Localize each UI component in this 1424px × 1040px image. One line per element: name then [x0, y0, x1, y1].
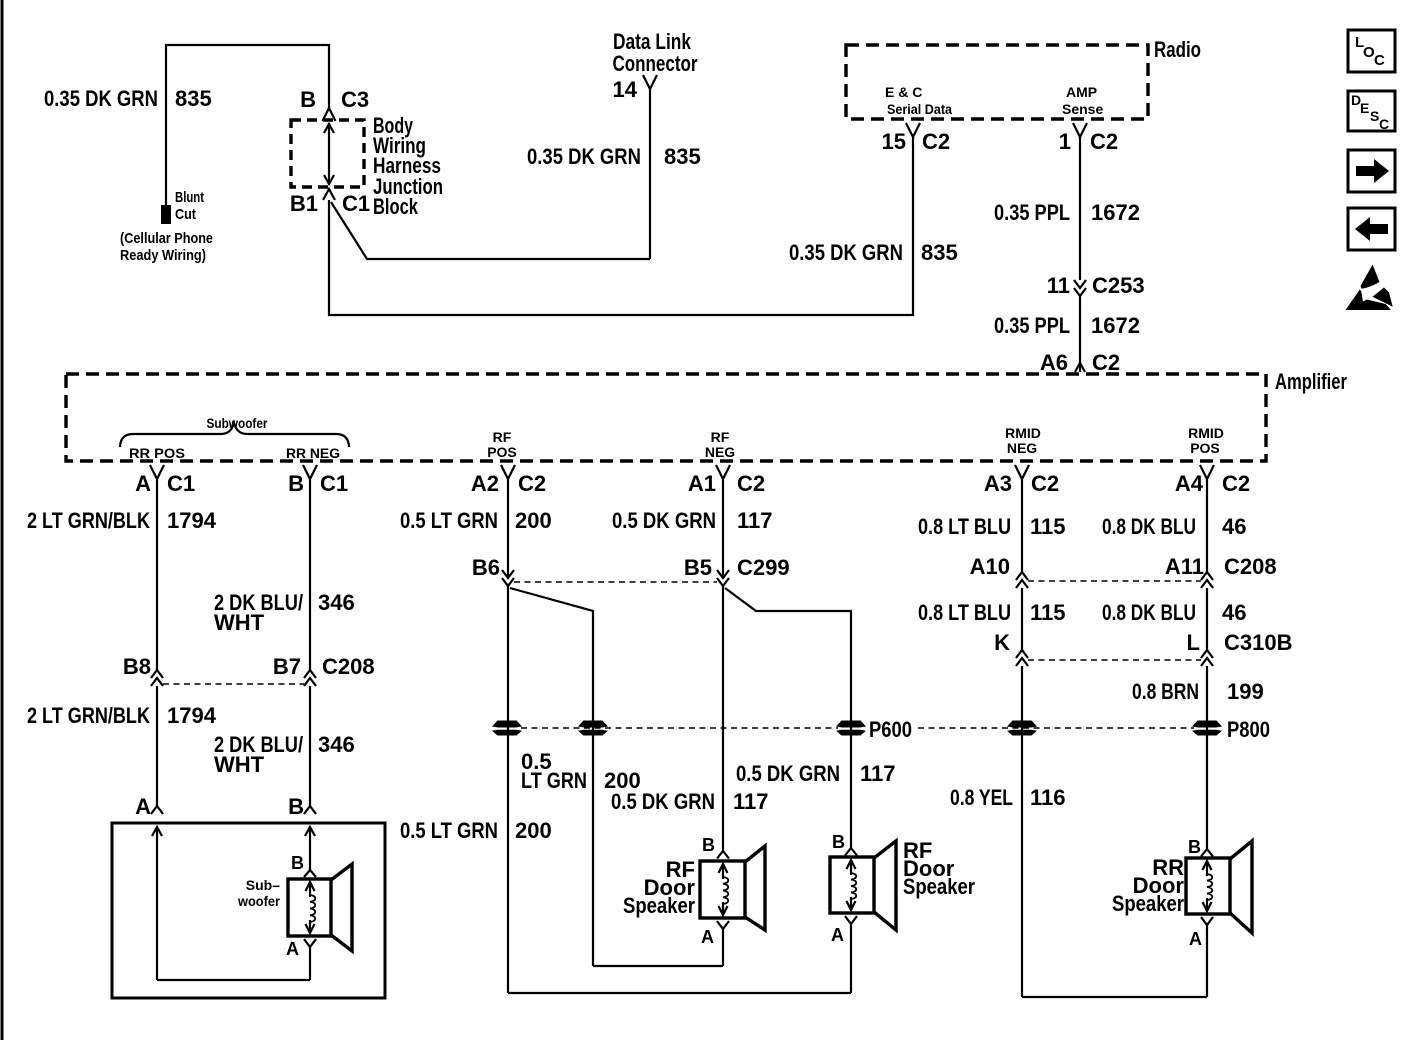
svg-text:K: K [994, 630, 1010, 655]
svg-text:C2: C2 [922, 129, 950, 154]
svg-text:115: 115 [1030, 600, 1066, 625]
svg-text:A: A [135, 471, 151, 496]
connector B8 [151, 670, 163, 678]
grommet P800 [1192, 721, 1222, 728]
connector B7 C208 [304, 670, 316, 678]
connector 11 C253 [1074, 280, 1086, 288]
amp pin A1 C2 fork [716, 465, 730, 479]
svg-text:0.8 DK BLU: 0.8 DK BLU [1102, 600, 1196, 625]
radio pin 1 fork [1073, 123, 1087, 137]
wire RF speaker 2 A return [850, 924, 852, 993]
subwoofer return wire [157, 979, 310, 981]
subwoofer speaker A fork [304, 939, 316, 947]
wire RR POS lower [156, 686, 158, 806]
svg-text:835: 835 [175, 86, 212, 111]
wire B5 branch [725, 588, 851, 848]
svg-text:A1: A1 [688, 471, 716, 496]
svg-text:Speaker: Speaker [1112, 891, 1184, 916]
svg-text:Block: Block [373, 194, 419, 219]
svg-text:200: 200 [515, 818, 552, 843]
svg-text:46: 46 [1222, 600, 1246, 625]
svg-text:1672: 1672 [1091, 200, 1140, 225]
radio pin 15 fork [906, 123, 920, 137]
subwoofer speaker B fork [304, 870, 316, 877]
connector B8-B7 dashed link [163, 683, 304, 685]
svg-text:B: B [300, 87, 316, 112]
grommet (B6 branch) [578, 721, 608, 728]
subwoofer wire B entry [305, 827, 315, 836]
svg-text:B: B [832, 832, 845, 852]
svg-text:WHT: WHT [214, 610, 265, 635]
svg-text:C208: C208 [322, 654, 375, 679]
wire RMID POS lower [1206, 666, 1208, 849]
amp pin A C1 fork [150, 465, 164, 479]
connector B6-B5 dashed link [514, 581, 717, 583]
svg-text:S: S [1370, 108, 1379, 124]
svg-text:Connector: Connector [613, 51, 698, 76]
wire B1 to DLC [331, 202, 650, 259]
svg-text:46: 46 [1222, 514, 1246, 539]
svg-text:C: C [1374, 52, 1385, 69]
icon DESC box [1348, 91, 1395, 131]
svg-text:WHT: WHT [214, 752, 265, 777]
svg-text:0.35 DK GRN: 0.35 DK GRN [789, 240, 903, 265]
svg-text:B5: B5 [684, 555, 712, 580]
svg-text:C2: C2 [518, 471, 546, 496]
svg-text:P600: P600 [869, 717, 912, 742]
svg-text:0.8 LT BLU: 0.8 LT BLU [918, 514, 1011, 539]
grommet (RMID NEG) [1007, 721, 1037, 728]
svg-text:RMID: RMID [1005, 425, 1041, 441]
svg-text:C3: C3 [341, 87, 369, 112]
svg-text:C2: C2 [737, 471, 765, 496]
wire RMID NEG upper [1021, 479, 1023, 572]
body wiring harness junction block box [291, 120, 364, 187]
grommet dashed link (right) [918, 727, 1194, 729]
svg-text:RF: RF [711, 429, 730, 445]
svg-text:Sub–: Sub– [246, 877, 280, 893]
svg-text:A: A [701, 927, 714, 947]
svg-text:0.5 LT GRN: 0.5 LT GRN [400, 818, 498, 843]
svg-text:Sense: Sense [1062, 101, 1103, 117]
svg-text:0.5 DK GRN: 0.5 DK GRN [611, 789, 715, 814]
svg-text:A11: A11 [1165, 554, 1204, 579]
wire RR speaker A return [1022, 996, 1207, 998]
wire AMP sense lower [1079, 296, 1081, 372]
connector A (subwoofer) chevron [151, 806, 163, 814]
svg-text:0.5 DK GRN: 0.5 DK GRN [736, 761, 840, 786]
svg-text:0.8 YEL: 0.8 YEL [950, 785, 1013, 810]
svg-text:woofer: woofer [237, 893, 280, 909]
wire RMID NEG lower [1021, 666, 1023, 997]
svg-text:1: 1 [1059, 129, 1071, 154]
DLC pin 14 fork [643, 75, 657, 89]
svg-text:C299: C299 [737, 555, 790, 580]
svg-text:POS: POS [1190, 440, 1220, 456]
svg-text:C208: C208 [1224, 554, 1277, 579]
amp pin A2 C2 fork [501, 465, 515, 479]
svg-text:0.35 DK GRN: 0.35 DK GRN [527, 144, 641, 169]
svg-text:(Cellular Phone: (Cellular Phone [120, 230, 213, 247]
RF speaker 2 B fork [845, 848, 857, 856]
junction block internal wire [328, 124, 330, 184]
wire B6 branch diagonal [510, 588, 593, 966]
svg-text:P800: P800 [1227, 717, 1270, 742]
svg-text:C1: C1 [167, 471, 195, 496]
connector A6 C2 arrow [1075, 363, 1085, 372]
svg-text:1794: 1794 [167, 508, 217, 533]
svg-text:C1: C1 [342, 191, 370, 216]
svg-text:0.8 LT BLU: 0.8 LT BLU [918, 600, 1011, 625]
svg-text:0.35 PPL: 0.35 PPL [994, 313, 1070, 338]
connector K-L dashed link [1028, 659, 1201, 661]
svg-text:B1: B1 [290, 191, 318, 216]
wire RR NEG lower [309, 686, 311, 806]
svg-text:0.35 DK GRN: 0.35 DK GRN [44, 86, 158, 111]
svg-text:C310B: C310B [1224, 630, 1292, 655]
svg-text:2 LT GRN/BLK: 2 LT GRN/BLK [27, 508, 150, 533]
wire AMP sense upper [1079, 137, 1081, 280]
svg-text:L: L [1187, 630, 1200, 655]
svg-text:A4: A4 [1175, 471, 1204, 496]
svg-text:11: 11 [1047, 273, 1070, 298]
wire B1 to radio E&C [329, 137, 913, 315]
icon left arrow box [1348, 208, 1395, 250]
svg-text:A10: A10 [970, 554, 1010, 579]
grommet (RF POS) [492, 721, 522, 728]
connector A11 C208 [1201, 572, 1213, 580]
RF speaker 1 B fork [717, 851, 729, 859]
wire RMID POS middle [1206, 588, 1208, 650]
svg-text:B: B [288, 794, 304, 819]
svg-text:116: 116 [1030, 785, 1066, 810]
svg-text:C2: C2 [1222, 471, 1250, 496]
svg-text:B6: B6 [472, 555, 500, 580]
RR door speaker [1186, 858, 1230, 914]
subwoofer speaker [288, 879, 331, 936]
amp pin A4 C2 fork [1200, 465, 1214, 479]
svg-text:RR NEG: RR NEG [286, 445, 340, 461]
wire RF NEG upper [722, 479, 724, 578]
connector L C310B [1201, 650, 1213, 658]
svg-text:A2: A2 [471, 471, 499, 496]
wire RF POS lower [507, 586, 509, 993]
wire RR NEG upper [309, 479, 311, 670]
amp pin B C1 fork [303, 465, 317, 479]
svg-text:A6: A6 [1040, 350, 1068, 375]
svg-text:200: 200 [515, 508, 552, 533]
page left border [1, 0, 4, 1040]
svg-text:C253: C253 [1092, 273, 1145, 298]
svg-text:0.8 BRN: 0.8 BRN [1132, 679, 1199, 704]
svg-text:14: 14 [613, 77, 638, 102]
svg-text:Ready Wiring): Ready Wiring) [120, 247, 206, 264]
svg-text:Amplifier: Amplifier [1275, 369, 1347, 394]
svg-text:346: 346 [318, 732, 355, 757]
radio box [846, 45, 1148, 119]
svg-text:Subwoofer: Subwoofer [207, 415, 268, 431]
svg-text:2 LT GRN/BLK: 2 LT GRN/BLK [27, 703, 150, 728]
wire RF NEG lower [722, 586, 724, 851]
RR speaker A fork [1201, 917, 1213, 925]
svg-text:NEG: NEG [705, 444, 735, 460]
svg-text:C1: C1 [320, 471, 348, 496]
svg-text:Cut: Cut [175, 206, 196, 223]
wire branch to RF speaker A [593, 965, 723, 967]
svg-text:15: 15 [882, 129, 906, 154]
svg-text:A: A [1189, 929, 1202, 949]
svg-text:A: A [286, 939, 299, 959]
icon ESD triangle [1361, 265, 1380, 289]
svg-text:835: 835 [664, 144, 701, 169]
svg-text:0.5 LT GRN: 0.5 LT GRN [400, 508, 498, 533]
svg-text:Serial Data: Serial Data [887, 101, 952, 117]
connector B1 C1 fork [323, 189, 335, 200]
connector K [1016, 650, 1028, 658]
svg-text:B: B [1188, 837, 1201, 857]
svg-text:1672: 1672 [1091, 313, 1140, 338]
subwoofer wire A entry [152, 827, 162, 836]
svg-text:C2: C2 [1031, 471, 1059, 496]
connector B (subwoofer) chevron [304, 806, 316, 814]
svg-text:RF: RF [493, 429, 512, 445]
svg-text:117: 117 [733, 789, 769, 814]
RF speaker 1 A fork [717, 921, 729, 929]
connector B C3 fork [323, 108, 336, 121]
svg-text:RMID: RMID [1188, 425, 1224, 441]
icon LOC box [1348, 30, 1395, 72]
wire RMID POS upper [1206, 479, 1208, 572]
svg-text:Speaker: Speaker [623, 893, 695, 918]
svg-text:B: B [288, 471, 304, 496]
connector B6 [502, 570, 514, 578]
svg-text:B8: B8 [123, 654, 151, 679]
svg-text:1794: 1794 [167, 703, 217, 728]
svg-text:Radio: Radio [1154, 37, 1201, 62]
svg-text:Speaker: Speaker [903, 874, 975, 899]
svg-text:0.35 PPL: 0.35 PPL [994, 200, 1070, 225]
wire RF POS upper [507, 479, 509, 578]
RR speaker B fork [1201, 849, 1213, 857]
svg-text:B7: B7 [273, 654, 301, 679]
connector B5 C299 [717, 570, 729, 578]
svg-text:835: 835 [921, 240, 958, 265]
wire DLC pin 14 drop [649, 89, 651, 259]
svg-text:199: 199 [1227, 679, 1264, 704]
svg-text:A: A [135, 794, 151, 819]
wire 835 to blunt cut [166, 45, 329, 207]
svg-text:A: A [831, 925, 844, 945]
wire RR POS upper [156, 479, 158, 670]
svg-text:C2: C2 [1092, 350, 1120, 375]
svg-text:LT GRN: LT GRN [521, 768, 587, 793]
svg-text:117: 117 [737, 508, 773, 533]
RF door speaker 2 [830, 857, 874, 913]
subwoofer brace [120, 423, 349, 447]
svg-text:B: B [291, 853, 304, 873]
amp pin A3 C2 fork [1015, 465, 1029, 479]
blunt cut terminal [161, 205, 171, 224]
svg-text:115: 115 [1030, 514, 1066, 539]
svg-text:C2: C2 [1090, 129, 1118, 154]
RF door speaker 1 [700, 861, 745, 918]
connector A10 [1016, 572, 1028, 580]
connector A10-A11 dashed link [1028, 580, 1201, 582]
svg-text:0.8 DK BLU: 0.8 DK BLU [1102, 514, 1196, 539]
svg-text:B: B [702, 835, 715, 855]
svg-text:0.5 DK GRN: 0.5 DK GRN [612, 508, 716, 533]
svg-text:POS: POS [487, 444, 517, 460]
amplifier box [66, 374, 1266, 461]
svg-text:AMP: AMP [1066, 84, 1097, 100]
subwoofer enclosure box [112, 823, 385, 998]
svg-text:117: 117 [860, 761, 896, 786]
grommet dashed link (left) [521, 727, 838, 729]
svg-text:RR POS: RR POS [129, 445, 185, 461]
svg-text:A3: A3 [984, 471, 1012, 496]
svg-text:NEG: NEG [1007, 440, 1037, 456]
icon right arrow box [1348, 150, 1395, 192]
wire RMID NEG middle [1021, 588, 1023, 650]
svg-text:346: 346 [318, 590, 355, 615]
RF speaker 2 A fork [845, 916, 857, 924]
svg-text:E & C: E & C [885, 84, 922, 100]
grommet P600 [836, 721, 866, 728]
svg-text:E: E [1360, 100, 1369, 116]
svg-text:C: C [1379, 116, 1389, 132]
svg-text:Blunt: Blunt [175, 189, 204, 206]
